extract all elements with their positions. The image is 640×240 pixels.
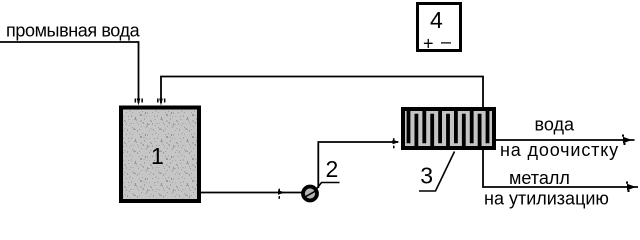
- svg-text:+: +: [423, 34, 434, 54]
- svg-text:вода: вода: [535, 115, 575, 135]
- svg-text:3: 3: [420, 162, 433, 188]
- wire: tank 1 outlet to pump 2: [201, 189, 302, 199]
- wire: treated water outlet (вода на доочистку): [496, 135, 635, 146]
- wire: metal outlet from electrolyzer 3 bottom (металл на утилизацию): [483, 150, 638, 192]
- svg-text:2: 2: [326, 156, 339, 182]
- wire: wash water feed line into tank 1: [0, 42, 143, 106]
- label 3 with leader line: [419, 152, 455, 192]
- svg-text:на утилизацию: на утилизацию: [484, 189, 609, 209]
- power supply 4 (rectifier box with + -): [418, 4, 461, 54]
- svg-text:1: 1: [151, 143, 164, 169]
- svg-text:–: –: [441, 32, 451, 52]
- pump 2 (circle with slash): [303, 187, 317, 201]
- label 2 with leader line: [316, 156, 340, 190]
- svg-text:металл: металл: [509, 168, 570, 188]
- electrolyzer 3 (box with interdigitated electrodes): [403, 109, 494, 148]
- wire: recycle line from electrolyzer 3 top to tank 1: [157, 77, 483, 108]
- svg-text:промывная вода: промывная вода: [6, 21, 141, 41]
- tank 1 (washing tank, grey speckled box): [121, 108, 199, 202]
- svg-text:4: 4: [430, 7, 443, 33]
- wire: pump 2 discharge to electrolyzer 3: [318, 138, 399, 188]
- svg-text:на доочистку: на доочистку: [500, 140, 619, 160]
